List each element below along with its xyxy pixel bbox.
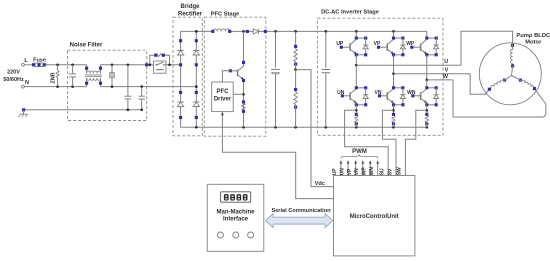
node N input terminal: [22, 80, 29, 88]
svg-text:220V: 220V: [7, 70, 20, 76]
PFC stage dashed box: [204, 17, 265, 136]
PWM brace: [341, 154, 378, 158]
PWM gate signal arrows: [340, 160, 380, 175]
wire W high-side emitter: [425, 53, 438, 81]
resistor R2 inrush bypass: [150, 54, 170, 65]
common-mode choke L1: [85, 65, 102, 87]
diode DVN: [400, 88, 405, 105]
wire PFC driver gate: [222, 71, 230, 82]
svg-text:SV: SV: [387, 168, 393, 175]
wire phase W output: [427, 79, 453, 81]
label Vdc: [315, 181, 325, 187]
diode DUN: [363, 88, 368, 105]
svg-text:Interface: Interface: [223, 216, 249, 222]
svg-text:WN: WN: [407, 90, 416, 96]
wire V low-side emitter: [392, 103, 405, 115]
wire W low-side collector: [425, 80, 438, 89]
label Serial Communication: [271, 208, 331, 214]
wire SW sense: [405, 110, 426, 175]
capacitor C1 electrolytic: [271, 31, 280, 127]
wire relay to bridge: [148, 63, 180, 66]
wire bottom rail: [181, 126, 429, 129]
transistor Q1 PFC: [229, 31, 245, 127]
bridge left leg wire: [180, 31, 182, 127]
PWM gate signal labels: [332, 167, 375, 176]
node N junction: [195, 85, 198, 88]
wire W to motor: [453, 80, 546, 117]
wire V high-side emitter: [392, 53, 405, 75]
transistor UN: [337, 89, 356, 103]
svg-text:UP: UP: [332, 168, 338, 176]
wire phase V output: [394, 73, 471, 75]
label W: [443, 74, 449, 80]
wire top rail: [181, 30, 427, 33]
wire PFC control from MCU: [221, 112, 334, 199]
svg-text:DC-AC Inverter Stage: DC-AC Inverter Stage: [321, 9, 379, 15]
wire V low-side collector: [392, 74, 405, 90]
svg-text:Man-Machine: Man-Machine: [216, 209, 255, 215]
diode DVP: [400, 38, 405, 55]
shunt resistor RSW: [425, 113, 428, 127]
inductor L2 PFC: [211, 29, 231, 33]
transistor WP: [406, 39, 427, 54]
wire U low-side collector: [355, 65, 368, 89]
diode DWP: [434, 38, 439, 55]
svg-text:PWM: PWM: [352, 149, 367, 155]
wire SU sense: [345, 110, 389, 175]
svg-text:50/60Hz: 50/60Hz: [3, 77, 24, 83]
inverter dashed box: [317, 18, 443, 135]
button 2: [233, 232, 239, 238]
resistor R3 PFC shunt: [242, 100, 245, 112]
svg-text:UN: UN: [339, 168, 345, 176]
diode D4: [193, 91, 199, 119]
diode DUP: [363, 38, 368, 55]
resistor R5 divider bottom: [294, 68, 297, 127]
Man-Machine Interface box: [207, 184, 264, 251]
diode D5 PFC: [246, 29, 267, 34]
label PWM: [352, 149, 367, 155]
svg-text:VN: VN: [354, 168, 360, 175]
wire U high-side emitter: [355, 53, 368, 66]
bridge rectifier dashed box: [173, 17, 202, 136]
label SU: [379, 168, 385, 175]
bridge right leg wire: [195, 31, 197, 127]
svg-text:VN: VN: [375, 90, 382, 96]
resistor R4 divider top: [294, 31, 297, 69]
svg-text:PFC Stage: PFC Stage: [211, 12, 239, 18]
wire N choke to bridge: [101, 85, 197, 88]
svg-text:Serial Communication: Serial Communication: [271, 208, 331, 214]
Y-capacitor CY2: [139, 87, 145, 110]
label PFC Stage: [211, 12, 239, 18]
motor winding U: [511, 44, 515, 76]
wire Vdc sense: [296, 70, 334, 187]
svg-text:U: U: [444, 59, 448, 65]
diode D2: [193, 39, 199, 66]
fuse F1: [32, 58, 46, 67]
PFC driver U2: [212, 82, 234, 112]
svg-text:V: V: [445, 68, 449, 74]
wire V high-side collector: [392, 31, 405, 39]
wire SV sense: [382, 110, 396, 175]
svg-text:Driver: Driver: [214, 97, 232, 103]
transistor UP: [336, 39, 356, 54]
wire L choke to relay: [101, 63, 156, 66]
motor M1 body: [479, 43, 541, 105]
svg-text:Vdc: Vdc: [315, 181, 325, 187]
shunt resistor RSV: [392, 113, 395, 127]
diode D3: [177, 91, 183, 119]
transistor WN: [407, 89, 427, 103]
wire V to motor: [470, 74, 489, 95]
resistor R3 zigzag: [242, 103, 245, 110]
ground wire: [24, 108, 143, 111]
wire L fuse to choke: [45, 63, 87, 66]
label SV: [387, 168, 393, 175]
relay RL1: [154, 61, 167, 73]
resistor R1 discharge: [110, 65, 115, 87]
label Man-Machine Interface: [216, 209, 255, 222]
transistor VN: [375, 89, 394, 103]
svg-text:UN: UN: [337, 90, 345, 96]
shunt resistor RSU: [355, 113, 358, 127]
button 1: [217, 232, 223, 238]
button 3: [248, 232, 254, 238]
svg-text:L: L: [24, 58, 28, 64]
diode D1: [177, 39, 183, 66]
serial communication arrow: [266, 214, 333, 228]
label DC-AC Inverter Stage: [321, 9, 379, 15]
label SW: [397, 167, 403, 175]
wire phase U output: [356, 64, 461, 66]
svg-text:SW: SW: [397, 167, 403, 175]
ground symbol PE: [18, 108, 27, 117]
wire W high-side collector: [425, 31, 438, 39]
wire U to motor: [461, 31, 513, 65]
svg-text:N: N: [25, 80, 29, 86]
label Noise Filter: [70, 42, 103, 48]
node L input terminal: [22, 58, 29, 66]
label U: [444, 59, 448, 65]
capacitor C2 inverter: [322, 31, 330, 127]
svg-text:MicroControlUnit: MicroControlUnit: [350, 214, 399, 220]
svg-text:VP: VP: [374, 41, 381, 47]
motor winding W: [512, 76, 536, 91]
svg-text:SU: SU: [379, 168, 385, 175]
label 220V 50/60Hz: [3, 70, 24, 83]
svg-text:Bridge: Bridge: [180, 4, 200, 10]
MicroControlUnit U3: [334, 176, 415, 256]
noise filter dashed box: [68, 50, 147, 120]
wire L from input to fuse: [24, 64, 33, 66]
label V: [445, 68, 449, 74]
svg-text:W: W: [443, 74, 449, 80]
transistor VP: [374, 39, 394, 54]
capacitor CX1: [69, 65, 76, 87]
wire W low-side emitter: [425, 103, 438, 115]
varistor ZNR: [50, 65, 59, 87]
wire PFC driver sense: [233, 93, 243, 95]
display 8888: [221, 192, 251, 202]
label Bridge Rectifier: [178, 4, 203, 18]
wire U high-side collector: [355, 31, 368, 39]
svg-text:Motor: Motor: [525, 40, 542, 46]
svg-text:WP: WP: [406, 41, 415, 47]
label Pump BLDC Motor: [516, 33, 550, 46]
svg-text:ZNR: ZNR: [50, 72, 56, 83]
node L at filter box edge: [145, 63, 148, 66]
svg-text:VP: VP: [347, 168, 353, 175]
svg-text:WP: WP: [362, 167, 368, 176]
diode DWN: [434, 88, 439, 105]
svg-text:UP: UP: [336, 41, 344, 47]
svg-text:Pump BLDC: Pump BLDC: [516, 33, 550, 39]
wire N input to choke: [24, 85, 86, 88]
Y-capacitor CY1: [125, 65, 131, 110]
wire U low-side emitter: [355, 103, 368, 115]
svg-text:Noise Filter: Noise Filter: [70, 42, 103, 48]
svg-text:Rectifier: Rectifier: [178, 12, 203, 18]
svg-text:PFC: PFC: [217, 89, 230, 95]
motor winding V: [488, 76, 512, 91]
svg-text:WN: WN: [369, 167, 375, 176]
